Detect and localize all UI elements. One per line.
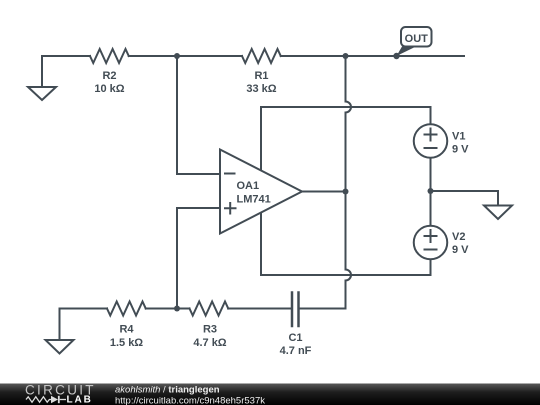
svg-text:LM741: LM741: [237, 194, 271, 206]
svg-text:1.5 kΩ: 1.5 kΩ: [110, 337, 143, 349]
op-amp OA1: [220, 150, 302, 234]
svg-text:http://circuitlab.com/c9n48eh5: http://circuitlab.com/c9n48eh5r537k: [115, 396, 265, 405]
svg-text:33 kΩ: 33 kΩ: [246, 83, 276, 95]
wire R4 to ground (bottom-left): [60, 308, 108, 310]
resistor R1: [242, 49, 281, 63]
CircuitLab logo wordmark: [25, 383, 96, 405]
svg-text:R3: R3: [203, 324, 217, 336]
svg-text:R1: R1: [254, 70, 268, 82]
wire ground to R2: [42, 55, 90, 57]
wire V1 to node E: [430, 158, 432, 191]
wire R4 to node C: [146, 308, 177, 310]
wire op-amp V+ pin to +9V rail: [260, 107, 262, 171]
svg-text:4.7 nF: 4.7 nF: [280, 345, 312, 357]
svg-text:LAB: LAB: [67, 395, 93, 405]
node D junction (op-amp output): [343, 189, 349, 195]
ground (top-left): [28, 56, 56, 100]
node A junction (R2/R1/inverting input): [174, 53, 180, 59]
svg-text:C1: C1: [288, 332, 302, 344]
node C junction (R4/R3/non-inverting input): [174, 306, 180, 312]
svg-text:akohlsmith / trianglegen: akohlsmith / trianglegen: [115, 385, 220, 396]
wire -9V rail to V2: [261, 259, 431, 275]
wire C1 to vertical output net: [300, 308, 346, 310]
wire node B to right end (OUT net): [346, 55, 465, 57]
OUT flag: [393, 27, 431, 59]
resistor R4: [107, 302, 146, 316]
wire node C to R3: [177, 308, 190, 310]
svg-text:R2: R2: [102, 70, 116, 82]
wire R1 to node B: [281, 55, 346, 57]
wire node A to R1: [177, 55, 242, 57]
wire +9V rail to V1: [261, 107, 431, 124]
wire non-inverting input down to node C: [177, 208, 219, 309]
node B junction (R1/output net): [343, 53, 349, 59]
svg-text:OA1: OA1: [237, 180, 260, 192]
wire node E to ground (right): [431, 190, 499, 192]
wire R3 to C1: [228, 308, 291, 310]
voltage source V1: [414, 124, 448, 158]
footer bar: [0, 383, 540, 405]
capacitor C1: [292, 293, 299, 327]
svg-text:V2: V2: [452, 231, 465, 243]
svg-text:10 kΩ: 10 kΩ: [94, 83, 124, 95]
voltage source V2: [414, 226, 448, 260]
CircuitLab logo resistor-diode icon: [26, 396, 66, 403]
resistor R2: [90, 49, 129, 63]
svg-text:9 V: 9 V: [452, 244, 469, 256]
svg-text:OUT: OUT: [405, 33, 429, 45]
wire R2 to node A: [129, 55, 177, 57]
wire op-amp output: [302, 191, 346, 193]
svg-text:V1: V1: [452, 131, 465, 143]
ground (right): [484, 191, 512, 219]
resistor R3: [190, 302, 229, 316]
wire node E to V2: [430, 191, 432, 226]
vertical output net wire with hops over supply rails: [346, 56, 352, 309]
wire node A down to inverting input: [177, 56, 219, 174]
node E junction (V1-/V2+/ground): [428, 188, 434, 194]
svg-text:R4: R4: [119, 324, 134, 336]
ground (bottom-left): [46, 309, 74, 354]
wire op-amp V- pin to -9V rail: [260, 213, 262, 276]
svg-text:4.7 kΩ: 4.7 kΩ: [193, 337, 226, 349]
svg-text:9 V: 9 V: [452, 144, 469, 156]
